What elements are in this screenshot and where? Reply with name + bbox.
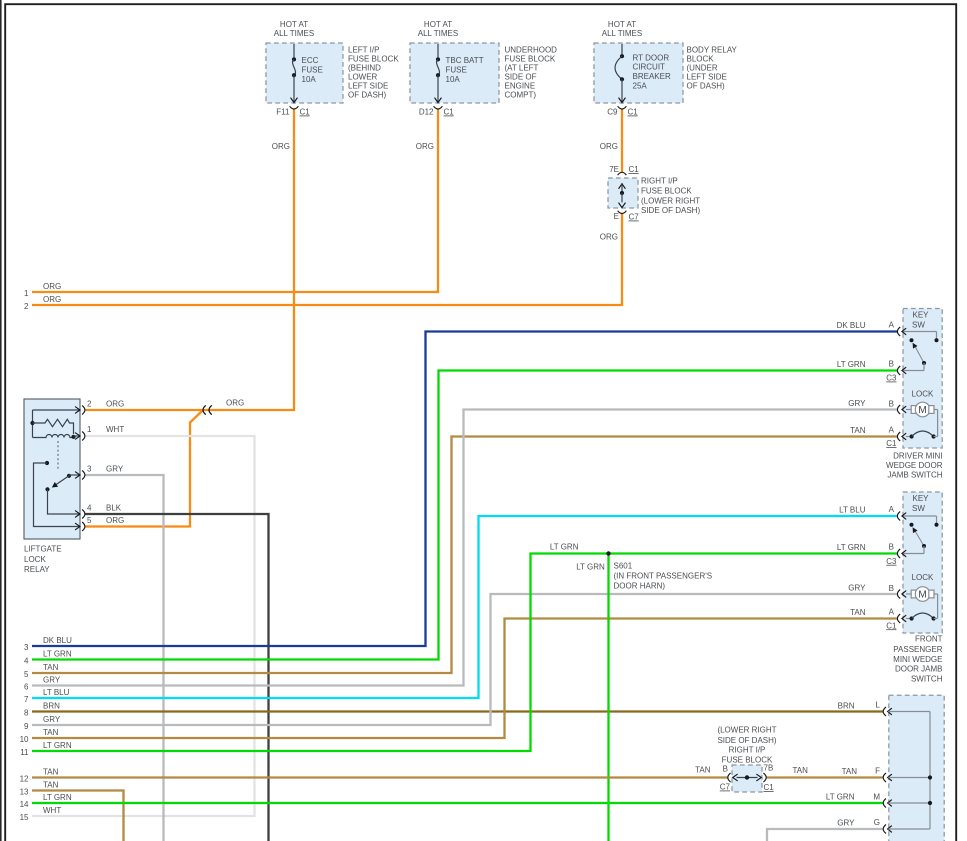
svg-text:LOWER: LOWER <box>348 72 378 81</box>
svg-text:C7: C7 <box>629 213 640 222</box>
svg-text:LEFT SIDE: LEFT SIDE <box>687 72 727 81</box>
svg-text:B: B <box>723 765 728 774</box>
in-line connector on ORG wire <box>203 398 244 414</box>
svg-text:LT GRN: LT GRN <box>43 793 72 802</box>
svg-text:ORG: ORG <box>43 282 61 291</box>
wire ORG: C9 breaker down to right I/P fuse block 7E <box>621 109 623 172</box>
svg-text:TAN: TAN <box>43 728 59 737</box>
connector pins L F M G (rear door lock actuator) <box>826 695 944 841</box>
svg-text:ORG: ORG <box>416 142 434 151</box>
wire TAN circuit 5 to driver lock motor pin A <box>32 437 898 674</box>
svg-text:1: 1 <box>87 425 92 434</box>
svg-text:FUSE BLOCK: FUSE BLOCK <box>641 187 692 196</box>
svg-text:DRIVER MINI: DRIVER MINI <box>893 451 942 460</box>
svg-text:S601: S601 <box>614 561 633 570</box>
svg-text:LT GRN: LT GRN <box>837 360 866 369</box>
switch DRIVER MINI WEDGE DOOR JAMB SWITCH <box>837 309 943 480</box>
svg-text:LT GRN: LT GRN <box>826 793 855 802</box>
svg-text:SWITCH: SWITCH <box>911 675 943 684</box>
svg-text:LT GRN: LT GRN <box>550 543 579 552</box>
svg-text:LOCK: LOCK <box>912 389 934 398</box>
svg-text:5: 5 <box>87 516 92 525</box>
svg-text:GRY: GRY <box>43 675 61 684</box>
svg-text:KEY: KEY <box>912 494 929 503</box>
svg-text:C9: C9 <box>607 108 618 117</box>
svg-text:ORG: ORG <box>43 295 61 304</box>
svg-text:A: A <box>889 608 895 617</box>
wire GRY: relay pin 3 down off page <box>85 475 164 841</box>
svg-text:ECC: ECC <box>302 56 319 65</box>
svg-text:LT GRN: LT GRN <box>43 741 72 750</box>
svg-text:BLOCK: BLOCK <box>687 54 715 63</box>
svg-text:C1: C1 <box>444 108 455 117</box>
svg-text:LT GRN: LT GRN <box>837 543 866 552</box>
wire LT BLU circuit 7 to passenger key switch pin A <box>32 516 898 698</box>
svg-text:RIGHT I/P: RIGHT I/P <box>729 745 766 754</box>
svg-text:4: 4 <box>87 504 92 513</box>
wire BLK: relay pin 4 down off page <box>85 514 269 841</box>
svg-text:8: 8 <box>24 708 29 717</box>
svg-text:6: 6 <box>24 682 29 691</box>
svg-text:7: 7 <box>24 695 29 704</box>
svg-text:FUSE BLOCK: FUSE BLOCK <box>348 54 399 63</box>
wire GRY circuit 6 to driver lock motor pin B <box>32 410 898 686</box>
svg-text:2: 2 <box>87 400 92 409</box>
svg-text:LT BLU: LT BLU <box>43 688 70 697</box>
svg-text:A: A <box>889 505 895 514</box>
svg-text:WHT: WHT <box>106 425 124 434</box>
wire BRN circuit 8 to connector pin L <box>32 710 884 712</box>
splice S601 <box>550 543 712 591</box>
svg-text:TAN: TAN <box>43 767 59 776</box>
svg-text:BRN: BRN <box>838 702 855 711</box>
svg-text:11: 11 <box>20 748 29 757</box>
relay LIFTGATE LOCK RELAY <box>24 399 124 574</box>
svg-text:L: L <box>876 701 881 710</box>
svg-text:FUSE: FUSE <box>302 65 323 74</box>
svg-text:GRY: GRY <box>837 818 855 827</box>
wire TAN: right I/P fuse block pin 7B to connector pin F <box>766 776 883 778</box>
svg-text:F11: F11 <box>276 108 290 117</box>
svg-text:WEDGE DOOR: WEDGE DOOR <box>886 461 943 470</box>
svg-text:C1: C1 <box>764 783 775 792</box>
svg-text:1: 1 <box>24 289 29 298</box>
wire LT GRN: S601 splice drop off page <box>607 554 609 841</box>
svg-text:25A: 25A <box>633 82 648 91</box>
svg-text:BRN: BRN <box>43 701 60 710</box>
svg-text:3: 3 <box>24 643 29 652</box>
svg-text:SW: SW <box>912 321 925 330</box>
svg-text:12: 12 <box>20 774 29 783</box>
svg-text:WHT: WHT <box>43 806 61 815</box>
svg-text:TAN: TAN <box>43 663 59 672</box>
wire LT GRN circuit 14 to connector pin M <box>32 802 884 804</box>
svg-text:OF DASH): OF DASH) <box>687 81 726 90</box>
svg-text:B: B <box>889 584 894 593</box>
svg-text:OF DASH): OF DASH) <box>348 90 387 99</box>
svg-text:5: 5 <box>24 670 29 679</box>
wire ORG: relay pin 5 to in-line connector <box>85 411 203 527</box>
svg-text:ORG: ORG <box>106 400 124 409</box>
svg-text:TAN: TAN <box>850 608 866 617</box>
svg-text:10A: 10A <box>446 75 461 84</box>
svg-text:C1: C1 <box>886 439 897 448</box>
svg-text:(BEHIND: (BEHIND <box>348 63 381 72</box>
svg-text:13: 13 <box>20 787 29 796</box>
svg-text:TBC BATT: TBC BATT <box>446 56 484 65</box>
svg-text:DOOR HARN): DOOR HARN) <box>614 582 666 591</box>
svg-text:M: M <box>918 590 926 601</box>
svg-text:4: 4 <box>24 656 29 665</box>
svg-text:ORG: ORG <box>272 142 290 151</box>
svg-text:ORG: ORG <box>600 233 618 242</box>
svg-text:TAN: TAN <box>695 765 711 774</box>
svg-text:RT DOOR: RT DOOR <box>633 53 670 62</box>
svg-text:GRY: GRY <box>848 399 866 408</box>
svg-text:C3: C3 <box>886 374 897 383</box>
svg-text:MINI WEDGE: MINI WEDGE <box>893 655 942 664</box>
svg-text:ENGINE: ENGINE <box>505 81 536 90</box>
svg-text:LT BLU: LT BLU <box>839 505 866 514</box>
connector B/7B RIGHT I/P FUSE BLOCK in-line on TAN wire <box>695 726 808 792</box>
svg-text:10A: 10A <box>302 75 317 84</box>
svg-text:LOCK: LOCK <box>912 573 934 582</box>
svg-text:B: B <box>889 359 894 368</box>
svg-text:A: A <box>889 320 895 329</box>
svg-text:FUSE: FUSE <box>446 65 467 74</box>
circuit breaker C9 RT DOOR 25A (BODY RELAY BLOCK) <box>594 20 738 151</box>
svg-text:(IN FRONT PASSENGER'S: (IN FRONT PASSENGER'S <box>614 572 713 581</box>
svg-text:SW: SW <box>912 504 925 513</box>
svg-text:ORG: ORG <box>226 398 244 407</box>
svg-text:E: E <box>614 212 619 221</box>
wire GRY circuit 9 to passenger lock motor pin B <box>32 594 898 725</box>
svg-text:10: 10 <box>20 735 29 744</box>
svg-text:C3: C3 <box>886 557 897 566</box>
svg-text:KEY: KEY <box>912 311 929 320</box>
svg-text:UNDERHOOD: UNDERHOOD <box>505 45 558 54</box>
wire ORG circuit 2: left edge to right I/P fuse block C7 <box>32 214 622 306</box>
connector C1/C7 RIGHT I/P FUSE BLOCK pass-through <box>600 165 701 242</box>
node circuit numbers and wire colour labels, left edge <box>20 282 73 822</box>
svg-text:ORG: ORG <box>106 516 124 525</box>
svg-text:G: G <box>874 818 880 827</box>
svg-text:2: 2 <box>24 302 29 311</box>
svg-text:7E: 7E <box>609 165 619 174</box>
svg-text:LT GRN: LT GRN <box>576 562 605 571</box>
svg-text:LEFT SIDE: LEFT SIDE <box>348 81 388 90</box>
svg-text:C1: C1 <box>629 165 640 174</box>
svg-text:PASSENGER: PASSENGER <box>893 645 942 654</box>
svg-text:B: B <box>889 399 894 408</box>
svg-text:FUSE BLOCK: FUSE BLOCK <box>505 54 556 63</box>
svg-text:RELAY: RELAY <box>24 565 50 574</box>
svg-text:C1: C1 <box>628 108 639 117</box>
svg-text:TAN: TAN <box>793 766 809 775</box>
svg-text:M: M <box>918 405 926 416</box>
svg-text:ALL TIMES: ALL TIMES <box>274 29 314 38</box>
svg-text:(LOWER RIGHT: (LOWER RIGHT <box>641 197 700 206</box>
svg-text:A: A <box>889 426 895 435</box>
svg-text:ALL TIMES: ALL TIMES <box>418 29 458 38</box>
svg-text:D12: D12 <box>419 108 434 117</box>
svg-text:GRY: GRY <box>848 583 866 592</box>
wire LT GRN circuit 4 to driver key switch pin B <box>32 371 898 660</box>
svg-text:(UNDER: (UNDER <box>687 63 718 72</box>
svg-text:TAN: TAN <box>43 780 59 789</box>
svg-text:LOCK: LOCK <box>24 555 46 564</box>
svg-text:7B: 7B <box>764 763 774 772</box>
fuse F11 ECC FUSE 10A (LEFT I/P FUSE BLOCK) <box>266 20 399 151</box>
svg-text:TAN: TAN <box>850 426 866 435</box>
svg-text:BODY RELAY: BODY RELAY <box>687 45 738 54</box>
wire ORG: ECC fuse F11 down to relay pin 2 <box>85 109 294 410</box>
svg-text:CIRCUIT: CIRCUIT <box>633 63 666 72</box>
svg-text:DK BLU: DK BLU <box>837 321 866 330</box>
svg-text:M: M <box>873 792 880 801</box>
svg-text:3: 3 <box>87 465 92 474</box>
svg-text:JAMB SWITCH: JAMB SWITCH <box>887 471 942 480</box>
svg-text:C7: C7 <box>720 783 731 792</box>
svg-text:LT GRN: LT GRN <box>43 649 72 658</box>
svg-text:FRONT: FRONT <box>915 635 943 644</box>
wire TAN circuit 10 to passenger lock motor pin A <box>32 619 898 739</box>
svg-text:SIDE OF DASH): SIDE OF DASH) <box>717 736 776 745</box>
svg-text:F: F <box>875 767 880 776</box>
svg-text:BLK: BLK <box>106 504 122 513</box>
svg-text:GRY: GRY <box>43 715 61 724</box>
fuse D12 TBC BATT FUSE 10A (UNDERHOOD FUSE BLOCK) <box>410 20 557 151</box>
svg-text:15: 15 <box>20 813 29 822</box>
svg-text:BREAKER: BREAKER <box>633 72 671 81</box>
wire LT GRN circuit 11 to passenger key switch pin B via S601 <box>32 554 898 752</box>
wire WHT: relay pin 1 to left edge circuit 15 <box>32 436 255 816</box>
svg-text:SIDE OF DASH): SIDE OF DASH) <box>641 206 700 215</box>
svg-text:C1: C1 <box>886 621 897 630</box>
svg-text:DK BLU: DK BLU <box>43 636 72 645</box>
svg-text:ORG: ORG <box>600 142 618 151</box>
svg-text:RIGHT I/P: RIGHT I/P <box>641 177 678 186</box>
svg-text:LIFTGATE: LIFTGATE <box>24 545 62 554</box>
wire TAN circuit 13 down off page <box>32 791 124 841</box>
svg-text:SIDE OF: SIDE OF <box>505 72 537 81</box>
switch FRONT PASSENGER MINI WEDGE DOOR JAMB SWITCH <box>837 492 943 684</box>
svg-text:B: B <box>889 542 894 551</box>
svg-text:ALL TIMES: ALL TIMES <box>602 29 642 38</box>
wire TAN circuit 12 to right I/P fuse block pin B <box>32 776 728 778</box>
svg-text:9: 9 <box>24 722 29 731</box>
wire GRY: connector pin G down off page <box>767 829 884 841</box>
wire DK BLU circuit 3 to driver key switch pin A <box>32 332 898 647</box>
svg-text:LEFT I/P: LEFT I/P <box>348 45 379 54</box>
svg-text:GRY: GRY <box>106 465 124 474</box>
svg-text:COMPT): COMPT) <box>505 90 537 99</box>
svg-text:(AT LEFT: (AT LEFT <box>505 63 539 72</box>
svg-text:(LOWER RIGHT: (LOWER RIGHT <box>717 726 776 735</box>
svg-text:14: 14 <box>20 800 29 809</box>
wire ORG circuit 1: left edge to D12 fuse <box>32 109 438 292</box>
svg-text:DOOR JAMB: DOOR JAMB <box>895 665 943 674</box>
svg-text:TAN: TAN <box>842 767 858 776</box>
svg-text:C1: C1 <box>300 108 311 117</box>
